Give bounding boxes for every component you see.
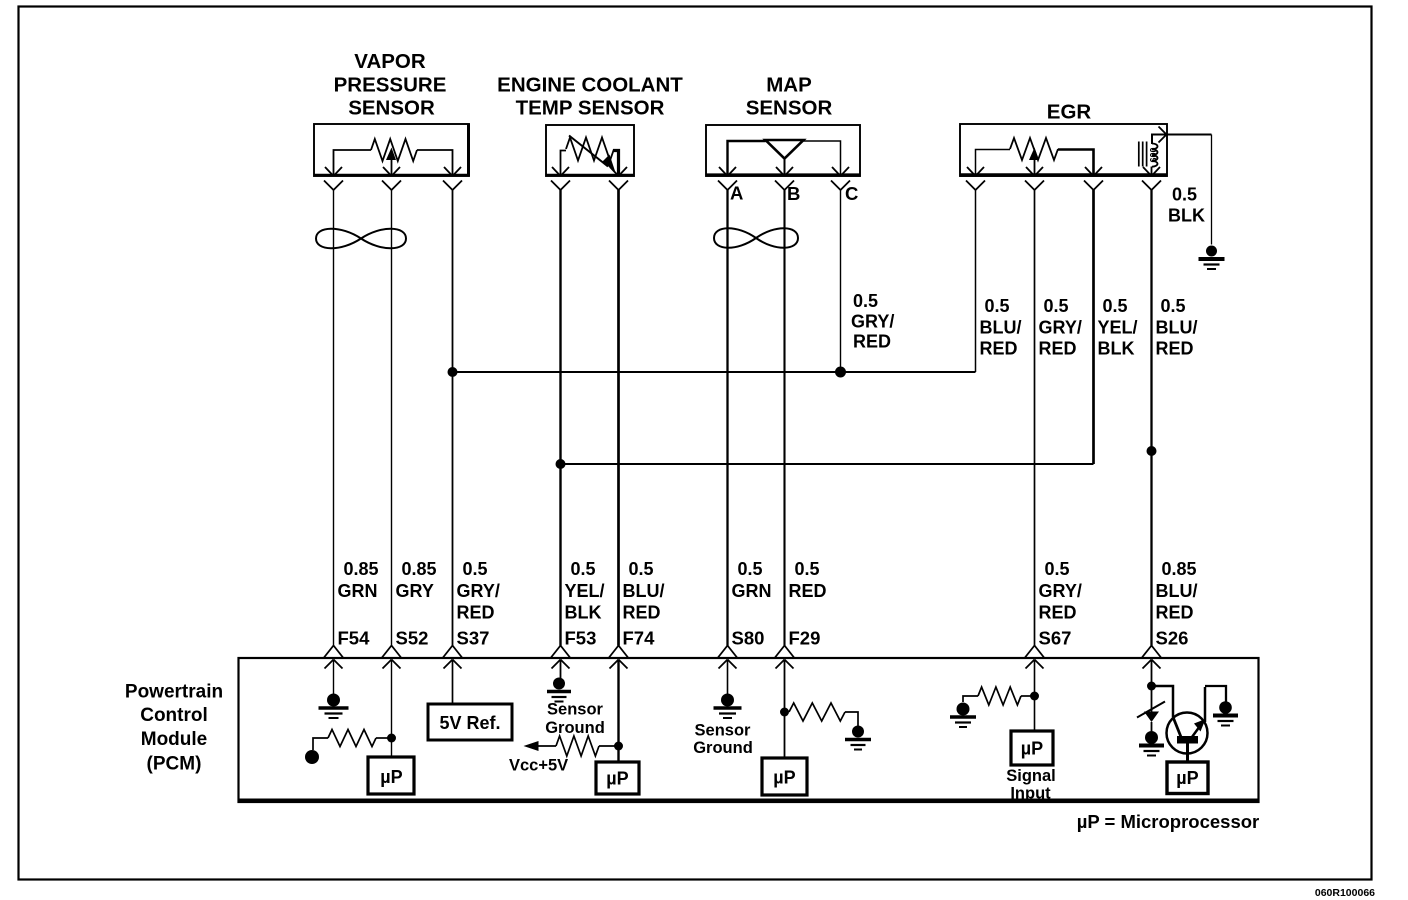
ECT thermistor resistor	[566, 138, 614, 161]
EGR box	[960, 124, 1167, 176]
EGR solenoid coil winding	[1152, 144, 1158, 167]
branch wire to transistor	[1152, 686, 1174, 717]
svg-text:5V Ref.: 5V Ref.	[439, 713, 500, 733]
svg-text:GRN: GRN	[732, 581, 772, 601]
svg-text:060R100066: 060R100066	[1315, 887, 1375, 899]
vapor sensor pot right lead wire	[417, 150, 453, 175]
svg-text:0.5: 0.5	[1161, 296, 1186, 316]
svg-text:Powertrain: Powertrain	[125, 682, 223, 703]
svg-text:C: C	[845, 183, 858, 204]
wire 0.5 RED x=784.5	[783, 190, 785, 646]
svg-text:µP: µP	[1021, 739, 1043, 759]
pull-up resistor to S52 wire	[328, 730, 376, 747]
svg-text:0.85: 0.85	[402, 559, 437, 579]
MAP triangle stem wire to pin B	[784, 159, 786, 176]
svg-text:0.5: 0.5	[571, 559, 596, 579]
EGR coil top lead wire	[1152, 135, 1166, 145]
svg-text:S37: S37	[457, 628, 490, 649]
svg-text:Signal: Signal	[1006, 767, 1056, 785]
svg-text:VAPOR: VAPOR	[354, 50, 426, 73]
svg-text:Vcc+5V: Vcc+5V	[509, 757, 568, 775]
resistor Vcc to F74 wire	[556, 736, 599, 756]
svg-text:Input: Input	[1010, 785, 1051, 803]
EGR pot wiper arrow	[1034, 158, 1036, 175]
svg-text:Ground: Ground	[693, 739, 753, 757]
svg-text:BLU/: BLU/	[980, 318, 1022, 338]
PCM wire from pin F53	[560, 660, 562, 678]
svg-text:S26: S26	[1156, 628, 1189, 649]
sensor ground symbol on F53	[553, 678, 565, 690]
svg-text:BLK: BLK	[1168, 206, 1205, 226]
EGR coil bottom lead wire to pin 4	[1151, 167, 1153, 176]
resistor F29 to ground	[789, 703, 845, 721]
zener diode on S26 wire	[1144, 712, 1159, 723]
PCM wire from pin F54	[333, 660, 335, 694]
microprocessor box uP (S67)	[1011, 731, 1053, 765]
splice junction dot MAP C wire	[835, 367, 846, 378]
svg-text:Module: Module	[141, 729, 208, 750]
svg-text:RED: RED	[457, 603, 495, 623]
svg-text:ENGINE COOLANT: ENGINE COOLANT	[497, 74, 683, 97]
svg-text:RED: RED	[789, 581, 827, 601]
EGR pot left lead wire	[976, 150, 1011, 176]
svg-text:F74: F74	[623, 628, 656, 649]
svg-text:(PCM): (PCM)	[147, 754, 202, 775]
svg-text:YEL/: YEL/	[565, 581, 605, 601]
svg-text:S52: S52	[396, 628, 429, 649]
junction dot on S26 wire	[1147, 682, 1156, 691]
splice junction dot on F53 wire	[556, 459, 566, 469]
svg-text:0.5: 0.5	[1172, 185, 1197, 205]
vapor sensor pot left lead wire	[334, 150, 372, 175]
PCM wire from pin S26	[1151, 660, 1153, 712]
ECT thermistor diagonal arrow	[569, 136, 608, 167]
svg-text:A: A	[730, 183, 743, 204]
ground below zener diode	[1145, 731, 1158, 744]
svg-text:0.5: 0.5	[1045, 559, 1070, 579]
EGR pot right lead wire	[1058, 150, 1094, 176]
svg-text:µP: µP	[606, 769, 628, 789]
svg-text:GRN: GRN	[338, 581, 378, 601]
svg-text:F29: F29	[789, 628, 821, 649]
svg-text:BLK: BLK	[565, 603, 602, 623]
svg-text:0.5: 0.5	[795, 559, 820, 579]
PCM connector pins	[324, 646, 334, 658]
ECT right lead wire	[614, 151, 619, 176]
PCM wire from pin F29 to microprocessor	[784, 660, 786, 758]
PCM wire from pin S80	[727, 660, 729, 694]
svg-text:YEL/: YEL/	[1098, 318, 1138, 338]
twisted pair symbol vapor sensor wires	[316, 229, 406, 249]
vapor pressure sensor box	[314, 124, 469, 176]
svg-text:0.5: 0.5	[629, 559, 654, 579]
splice junction dot on S26 wire	[1147, 446, 1157, 456]
svg-text:0.5: 0.5	[1044, 296, 1069, 316]
svg-text:RED: RED	[1039, 339, 1077, 359]
MAP sensor transducer triangle	[766, 140, 804, 159]
junction dot on F74 wire	[614, 742, 623, 751]
resistor S67 to ground	[978, 687, 1021, 705]
transistor collector wire to ground	[1204, 687, 1207, 722]
transistor base wire to microprocessor	[1186, 744, 1189, 763]
svg-text:GRY/: GRY/	[1039, 318, 1082, 338]
ground on F54 input	[327, 694, 340, 707]
sensor ground symbol on S80	[721, 694, 734, 707]
ECT connector pins	[552, 167, 561, 176]
svg-text:µP = Microprocessor: µP = Microprocessor	[1077, 811, 1260, 832]
MAP sensor box	[706, 125, 860, 176]
MAP right branch wire	[804, 141, 841, 175]
svg-text:GRY/: GRY/	[457, 581, 500, 601]
svg-text:TEMP SENSOR: TEMP SENSOR	[516, 97, 665, 120]
wire 0.5 BLK from EGR to ground	[1167, 134, 1212, 136]
svg-text:0.5: 0.5	[738, 559, 763, 579]
svg-text:600: 600	[1149, 147, 1159, 162]
junction dot on S52 wire	[387, 734, 396, 743]
splice junction dot on S37 wire	[448, 367, 458, 377]
wire 0.5 GRN x=727.5	[726, 190, 728, 646]
wire 0.5 YEL/BLK x=560.5	[559, 190, 561, 646]
junction dot on S67 wire	[1030, 692, 1039, 701]
svg-text:Sensor: Sensor	[547, 701, 604, 719]
transistor Q driver	[1167, 713, 1208, 754]
svg-text:RED: RED	[623, 603, 661, 623]
wire 0.5 GRY/RED x=1034.5	[1034, 190, 1036, 646]
ground for EGR case wire	[1206, 246, 1217, 257]
ground for F29 resistor	[852, 726, 864, 738]
svg-text:0.85: 0.85	[344, 559, 379, 579]
svg-text:PRESSURE: PRESSURE	[334, 74, 447, 97]
svg-text:BLU/: BLU/	[623, 581, 665, 601]
wire MAP pin C 0.5 GRY/RED to splice	[840, 190, 842, 372]
svg-text:µP: µP	[1176, 768, 1198, 788]
svg-text:0.5: 0.5	[853, 291, 878, 311]
wire 0.5 GRY/RED x=452.5	[452, 190, 454, 646]
wire EGR pin1 0.5 BLU/RED to splice bus	[975, 190, 977, 372]
svg-text:RED: RED	[853, 332, 891, 352]
svg-text:GRY/: GRY/	[1039, 581, 1082, 601]
5V Ref. box	[428, 704, 512, 740]
PCM wire from pin F74 to microprocessor	[617, 660, 619, 763]
svg-text:0.5: 0.5	[463, 559, 488, 579]
svg-text:GRY/: GRY/	[851, 312, 894, 332]
svg-text:SENSOR: SENSOR	[348, 97, 435, 120]
svg-text:RED: RED	[1039, 603, 1077, 623]
PCM wire from pin S37 to 5V Ref	[452, 660, 454, 704]
wire 0.85 GRN x=333.5	[333, 190, 335, 646]
svg-text:F53: F53	[565, 628, 597, 649]
vapor sensor pot wiper arrow	[391, 158, 393, 175]
svg-text:B: B	[787, 183, 800, 204]
svg-text:F54: F54	[338, 628, 371, 649]
twisted pair symbol MAP sensor wires	[714, 228, 798, 248]
MAP left branch wire	[728, 141, 766, 175]
svg-text:Control: Control	[140, 705, 208, 726]
svg-text:SENSOR: SENSOR	[746, 97, 833, 120]
microprocessor box uP (S26)	[1167, 762, 1208, 794]
EGR case connector arrow top right	[1159, 127, 1167, 135]
PCM wire from pin S67 to microprocessor	[1034, 660, 1036, 731]
horizontal splice bus wire 1	[453, 371, 976, 373]
MAP connector pins	[719, 167, 728, 176]
vapor sensor connector pins	[325, 167, 334, 176]
PCM wire from pin S52 to microprocessor	[391, 660, 393, 757]
svg-text:EGR: EGR	[1047, 101, 1092, 124]
svg-text:RED: RED	[1156, 603, 1194, 623]
ECT left lead wire	[561, 151, 567, 176]
ground for transistor collector	[1219, 701, 1232, 714]
microprocessor box uP (F29)	[762, 758, 807, 795]
svg-text:µP: µP	[773, 768, 795, 788]
svg-text:BLU/: BLU/	[1156, 318, 1198, 338]
svg-text:0.85: 0.85	[1162, 559, 1197, 579]
EGR potentiometer resistor	[1010, 138, 1058, 160]
wire 0.85 GRY x=391.5	[391, 190, 393, 646]
Vcc supply arrow	[524, 741, 539, 751]
svg-text:S67: S67	[1039, 628, 1072, 649]
svg-text:BLU/: BLU/	[1156, 581, 1198, 601]
horizontal splice bus wire 2	[561, 463, 1094, 465]
svg-text:S80: S80	[732, 628, 765, 649]
svg-text:0.5: 0.5	[1103, 296, 1128, 316]
EGR box thick bottom edge	[960, 173, 1167, 176]
vapor sensor potentiometer resistor	[371, 139, 417, 161]
wire 0.5 BLU/RED x=618.5	[617, 190, 620, 646]
ground for S67 resistor	[957, 703, 970, 716]
svg-text:GRY: GRY	[396, 581, 434, 601]
microprocessor box uP (F74)	[596, 762, 639, 794]
microprocessor box uP (S52)	[368, 757, 414, 794]
svg-text:Sensor: Sensor	[695, 722, 752, 740]
Powertrain Control Module PCM box	[239, 658, 1259, 802]
EGR solenoid coil core lines	[1138, 142, 1140, 167]
svg-text:0.5: 0.5	[985, 296, 1010, 316]
wire EGR pin3 0.5 YEL/BLK to splice bus	[1092, 190, 1095, 464]
junction dot on F29 wire	[780, 708, 789, 717]
svg-text:BLK: BLK	[1098, 339, 1135, 359]
EGR connector pins	[967, 167, 976, 176]
svg-text:RED: RED	[980, 339, 1018, 359]
engine coolant temp sensor box	[546, 125, 634, 176]
svg-text:RED: RED	[1156, 339, 1194, 359]
svg-text:µP: µP	[380, 767, 402, 787]
svg-text:Ground: Ground	[545, 719, 605, 737]
svg-text:MAP: MAP	[766, 74, 812, 97]
wire 0.85 BLU/RED x=1151.5	[1150, 190, 1152, 646]
supply node dot	[305, 750, 319, 764]
